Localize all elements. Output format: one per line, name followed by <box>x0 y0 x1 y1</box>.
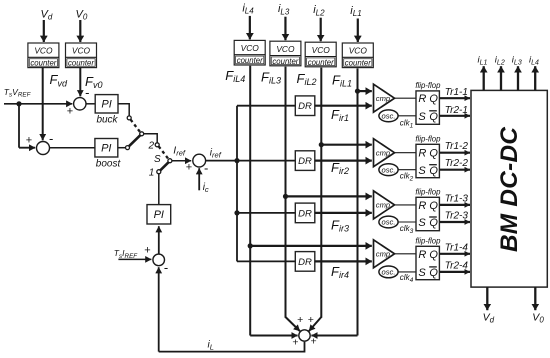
wire cmp3 to flipflop R <box>395 204 417 206</box>
switch closed wiper J-C <box>129 135 140 146</box>
svg-text:DR: DR <box>298 156 312 167</box>
wire iL1 sense output arrow <box>483 66 485 90</box>
wire cmp2 to flipflop R <box>395 152 417 154</box>
wire summer3 to PI3 arrow <box>158 226 160 254</box>
comparator cmp4 <box>374 240 395 268</box>
svg-text:counter: counter <box>30 59 56 68</box>
oscillator osc2 <box>379 164 398 176</box>
svg-text:osc.: osc. <box>382 165 396 174</box>
svg-text:Q: Q <box>429 165 438 177</box>
svg-text:Tr2-2: Tr2-2 <box>445 158 469 169</box>
svg-text:boost: boost <box>96 159 122 170</box>
svg-text:BM DC-DC: BM DC-DC <box>496 127 523 252</box>
svg-text:cmp: cmp <box>376 201 390 210</box>
summer S2 boost error <box>37 142 50 155</box>
wire iL3 sense output arrow <box>517 66 519 90</box>
switch open wiper dashed A-J <box>131 120 141 133</box>
comparator cmp1 <box>374 84 395 112</box>
svg-text:VCO: VCO <box>34 46 53 56</box>
wire iref to DR2 <box>206 160 296 162</box>
node FiL2 tap junction <box>319 142 324 147</box>
svg-text:Q: Q <box>429 93 438 105</box>
VCO counter block phase 3 <box>270 41 301 66</box>
PI controller buck <box>95 95 118 113</box>
wire Vd output arrow <box>486 287 488 310</box>
oscillator osc3 <box>379 216 398 228</box>
wire osc1 to flipflop S clk1 <box>398 115 416 117</box>
svg-text:Q: Q <box>429 267 438 279</box>
wire FiL1 vertical <box>357 68 359 335</box>
svg-text:-: - <box>49 131 53 146</box>
wire Tr2-2 output arrow <box>439 169 470 171</box>
svg-text:DR: DR <box>298 101 312 112</box>
svg-text:counter: counter <box>68 59 94 68</box>
node TsVREF junction <box>16 101 21 106</box>
svg-text:Tr2-1: Tr2-1 <box>445 105 468 116</box>
svg-text:+: + <box>297 314 303 326</box>
svg-text:+: + <box>144 245 150 257</box>
svg-text:osc.: osc. <box>382 111 396 120</box>
svg-text:flip-flop: flip-flop <box>415 81 441 90</box>
wire Tr1-4 output arrow <box>439 253 470 255</box>
flip-flop 4 <box>416 246 439 279</box>
wire Fir4 DR4 output to cmp4 arrow <box>315 260 372 262</box>
wire iL2 input arrow <box>320 18 322 42</box>
VCO counter block phase 4 <box>234 40 265 65</box>
svg-text:DR: DR <box>298 208 312 219</box>
DR block 1 <box>295 96 315 116</box>
svg-text:+: + <box>26 135 32 147</box>
wire J to contact 2 <box>144 134 158 143</box>
DR block 4 <box>295 252 315 272</box>
wire iref to DR3 <box>237 212 295 214</box>
svg-text:flip-flop: flip-flop <box>415 135 441 144</box>
wire osc4 to flipflop S clk4 <box>398 271 416 273</box>
flip-flop 2 <box>416 144 439 177</box>
svg-text:Tr2-4: Tr2-4 <box>445 260 469 271</box>
wire S2 to PI boost <box>50 147 95 149</box>
node iref junction row3 <box>234 210 239 215</box>
switch common S <box>168 159 172 163</box>
oscillator osc1 <box>379 110 398 122</box>
wire FiL4 into bottom summer <box>250 335 297 337</box>
wire iL4 sense output arrow <box>534 66 536 90</box>
svg-text:PI: PI <box>154 209 164 221</box>
wire Fir2 DR2 output to cmp2 arrow <box>315 160 372 162</box>
svg-text:osc.: osc. <box>382 268 396 277</box>
svg-text:2: 2 <box>148 141 155 152</box>
wire iL4 input arrow <box>249 16 251 40</box>
converter block BM DC-DC <box>471 90 547 287</box>
svg-text:VCO: VCO <box>312 45 331 55</box>
svg-text:Q: Q <box>429 249 438 261</box>
VCO counter block U2 (V0) <box>66 43 97 68</box>
svg-text:VCO: VCO <box>72 46 91 56</box>
wire Tr2-1 output arrow <box>439 115 470 117</box>
wire S1 to PI buck <box>86 103 95 105</box>
summer S1 buck error <box>74 98 86 110</box>
wire FiL4 to cmp4 arrow <box>250 245 372 247</box>
switch contact boost C <box>126 146 130 150</box>
wire FiL2 diagonal into bottom summer <box>309 317 321 331</box>
node FiL4 tap junction <box>248 243 253 248</box>
DR block 2 <box>295 151 315 171</box>
switch pivot J <box>140 132 144 136</box>
svg-text:flip-flop: flip-flop <box>415 188 441 197</box>
svg-text:S: S <box>418 165 426 177</box>
svg-text:+: + <box>292 337 298 349</box>
wire osc2 to flipflop S clk2 <box>398 169 416 171</box>
wire Fvd vertical <box>42 67 44 140</box>
node iref junction main <box>234 158 239 163</box>
svg-text:counter: counter <box>308 58 334 67</box>
svg-text:+: + <box>308 314 314 326</box>
wire Tr2-3 output arrow <box>439 221 470 223</box>
svg-text:Tr1-2: Tr1-2 <box>445 141 469 152</box>
svg-text:counter: counter <box>272 57 298 66</box>
wire Fv0 vertical <box>79 67 81 96</box>
wire PI buck output <box>118 104 129 116</box>
wire TsIREF input arrow <box>118 258 151 260</box>
svg-text:cmp: cmp <box>376 250 390 259</box>
svg-text:Tr1-1: Tr1-1 <box>445 87 468 98</box>
wire Vd input arrow <box>43 20 45 42</box>
wire iL2 sense output arrow <box>500 66 502 90</box>
svg-text:-: - <box>204 161 208 176</box>
wire PI boost output <box>118 147 126 149</box>
wire Fir3 DR3 output to cmp3 arrow <box>315 212 372 214</box>
VCO counter block phase 1 <box>342 43 373 68</box>
wire iref to DR4 <box>237 260 295 262</box>
wire Tr1-1 output arrow <box>439 97 470 99</box>
wire V0 input arrow <box>79 20 81 42</box>
wire FiL4 vertical <box>249 66 251 336</box>
switch open dashed 2-S <box>159 146 169 159</box>
wire iL feedback bottom <box>159 342 305 352</box>
wire branch to boost summer <box>19 147 35 149</box>
summer S4 iref-ic <box>193 154 206 167</box>
svg-text:counter: counter <box>237 56 263 65</box>
flip-flop 1 <box>416 91 439 124</box>
svg-text:DR: DR <box>298 257 312 268</box>
wire iref vertical distribution <box>236 106 238 262</box>
wire FiL2 to cmp2 arrow <box>321 144 372 146</box>
oscillator osc4 <box>379 266 398 278</box>
svg-text:VCO: VCO <box>349 46 368 56</box>
svg-text:+: + <box>311 336 317 348</box>
wire FiL2 vertical <box>320 68 322 318</box>
VCO counter block U1 (Vd) <box>28 43 59 68</box>
comparator cmp3 <box>374 191 395 219</box>
comparator cmp2 <box>374 139 395 167</box>
node FiL3 tap junction <box>283 194 288 199</box>
summer S5 phase currents <box>299 330 310 341</box>
svg-text:Q: Q <box>429 217 438 229</box>
svg-text:osc.: osc. <box>382 218 396 227</box>
wire S common to summer Iref <box>172 160 191 162</box>
wire FiL3 to cmp3 arrow <box>286 195 372 197</box>
svg-text:buck: buck <box>96 115 118 126</box>
svg-text:VCO: VCO <box>241 43 260 53</box>
VCO counter block phase 2 <box>305 42 336 67</box>
svg-text:S: S <box>418 111 426 123</box>
svg-text:VCO: VCO <box>276 44 295 54</box>
svg-text:R: R <box>418 249 426 261</box>
svg-text:PI: PI <box>101 99 111 111</box>
wire FiL3 vertical <box>285 67 287 318</box>
node FiL1 tap junction <box>355 89 360 94</box>
wire cmp4 to flipflop R <box>395 253 417 255</box>
svg-text:cmp: cmp <box>376 94 390 103</box>
wire iL3 input arrow <box>284 17 286 41</box>
wire cmp1 to flipflop R <box>395 97 417 99</box>
summer S3 current error <box>153 254 165 266</box>
switch contact buck A <box>127 116 131 120</box>
wire Tr2-4 output arrow <box>439 271 470 273</box>
svg-text:Tr1-4: Tr1-4 <box>445 242 469 253</box>
wire Tr1-3 output arrow <box>439 204 470 206</box>
svg-text:R: R <box>418 200 426 212</box>
svg-text:R: R <box>418 148 426 160</box>
switch contact 2 <box>155 143 159 147</box>
svg-text:Q: Q <box>429 200 438 212</box>
wire iL1 input arrow <box>357 19 359 43</box>
svg-text:1: 1 <box>149 168 155 179</box>
wire FiL3 diagonal into bottom summer <box>286 317 300 331</box>
svg-text:S: S <box>418 267 426 279</box>
svg-text:counter: counter <box>345 59 371 68</box>
PI controller boost <box>95 139 118 158</box>
wire Tr1-2 output arrow <box>439 152 470 154</box>
svg-text:S: S <box>154 154 161 165</box>
svg-text:-: - <box>85 85 89 100</box>
wire TsVREF branch down <box>18 103 20 148</box>
flip-flop 3 <box>416 197 439 230</box>
switch closed wiper S-1 <box>160 162 168 170</box>
wire iref to DR1 <box>237 105 295 107</box>
svg-text:flip-flop: flip-flop <box>415 237 441 246</box>
wire ic input arrow <box>198 168 200 190</box>
PI controller current <box>147 205 171 224</box>
wire FiL1 to cmp1 arrow <box>358 90 372 92</box>
svg-text:S: S <box>418 217 426 229</box>
wire iL feedback up into S3 <box>158 267 160 351</box>
svg-text:Q: Q <box>429 148 438 160</box>
switch contact 1 <box>157 170 161 174</box>
wire TsVREF input <box>4 103 72 105</box>
svg-text:cmp: cmp <box>376 149 390 158</box>
svg-text:Q: Q <box>429 111 438 123</box>
wire osc3 to flipflop S clk3 <box>398 221 416 223</box>
svg-text:+: + <box>67 106 73 118</box>
wire FiL1 into bottom summer <box>311 335 357 337</box>
svg-text:Tr2-3: Tr2-3 <box>445 211 469 222</box>
svg-text:R: R <box>418 93 426 105</box>
wire contact1 to PI3 <box>158 174 160 205</box>
svg-text:Tr1-3: Tr1-3 <box>445 194 469 205</box>
wire Fir1 DR1 output to cmp1 arrow <box>315 105 372 107</box>
svg-text:-: - <box>164 260 168 275</box>
wire V0 output arrow <box>534 287 536 310</box>
svg-text:PI: PI <box>101 143 111 155</box>
svg-text:+: + <box>186 161 192 173</box>
DR block 3 <box>295 203 315 223</box>
